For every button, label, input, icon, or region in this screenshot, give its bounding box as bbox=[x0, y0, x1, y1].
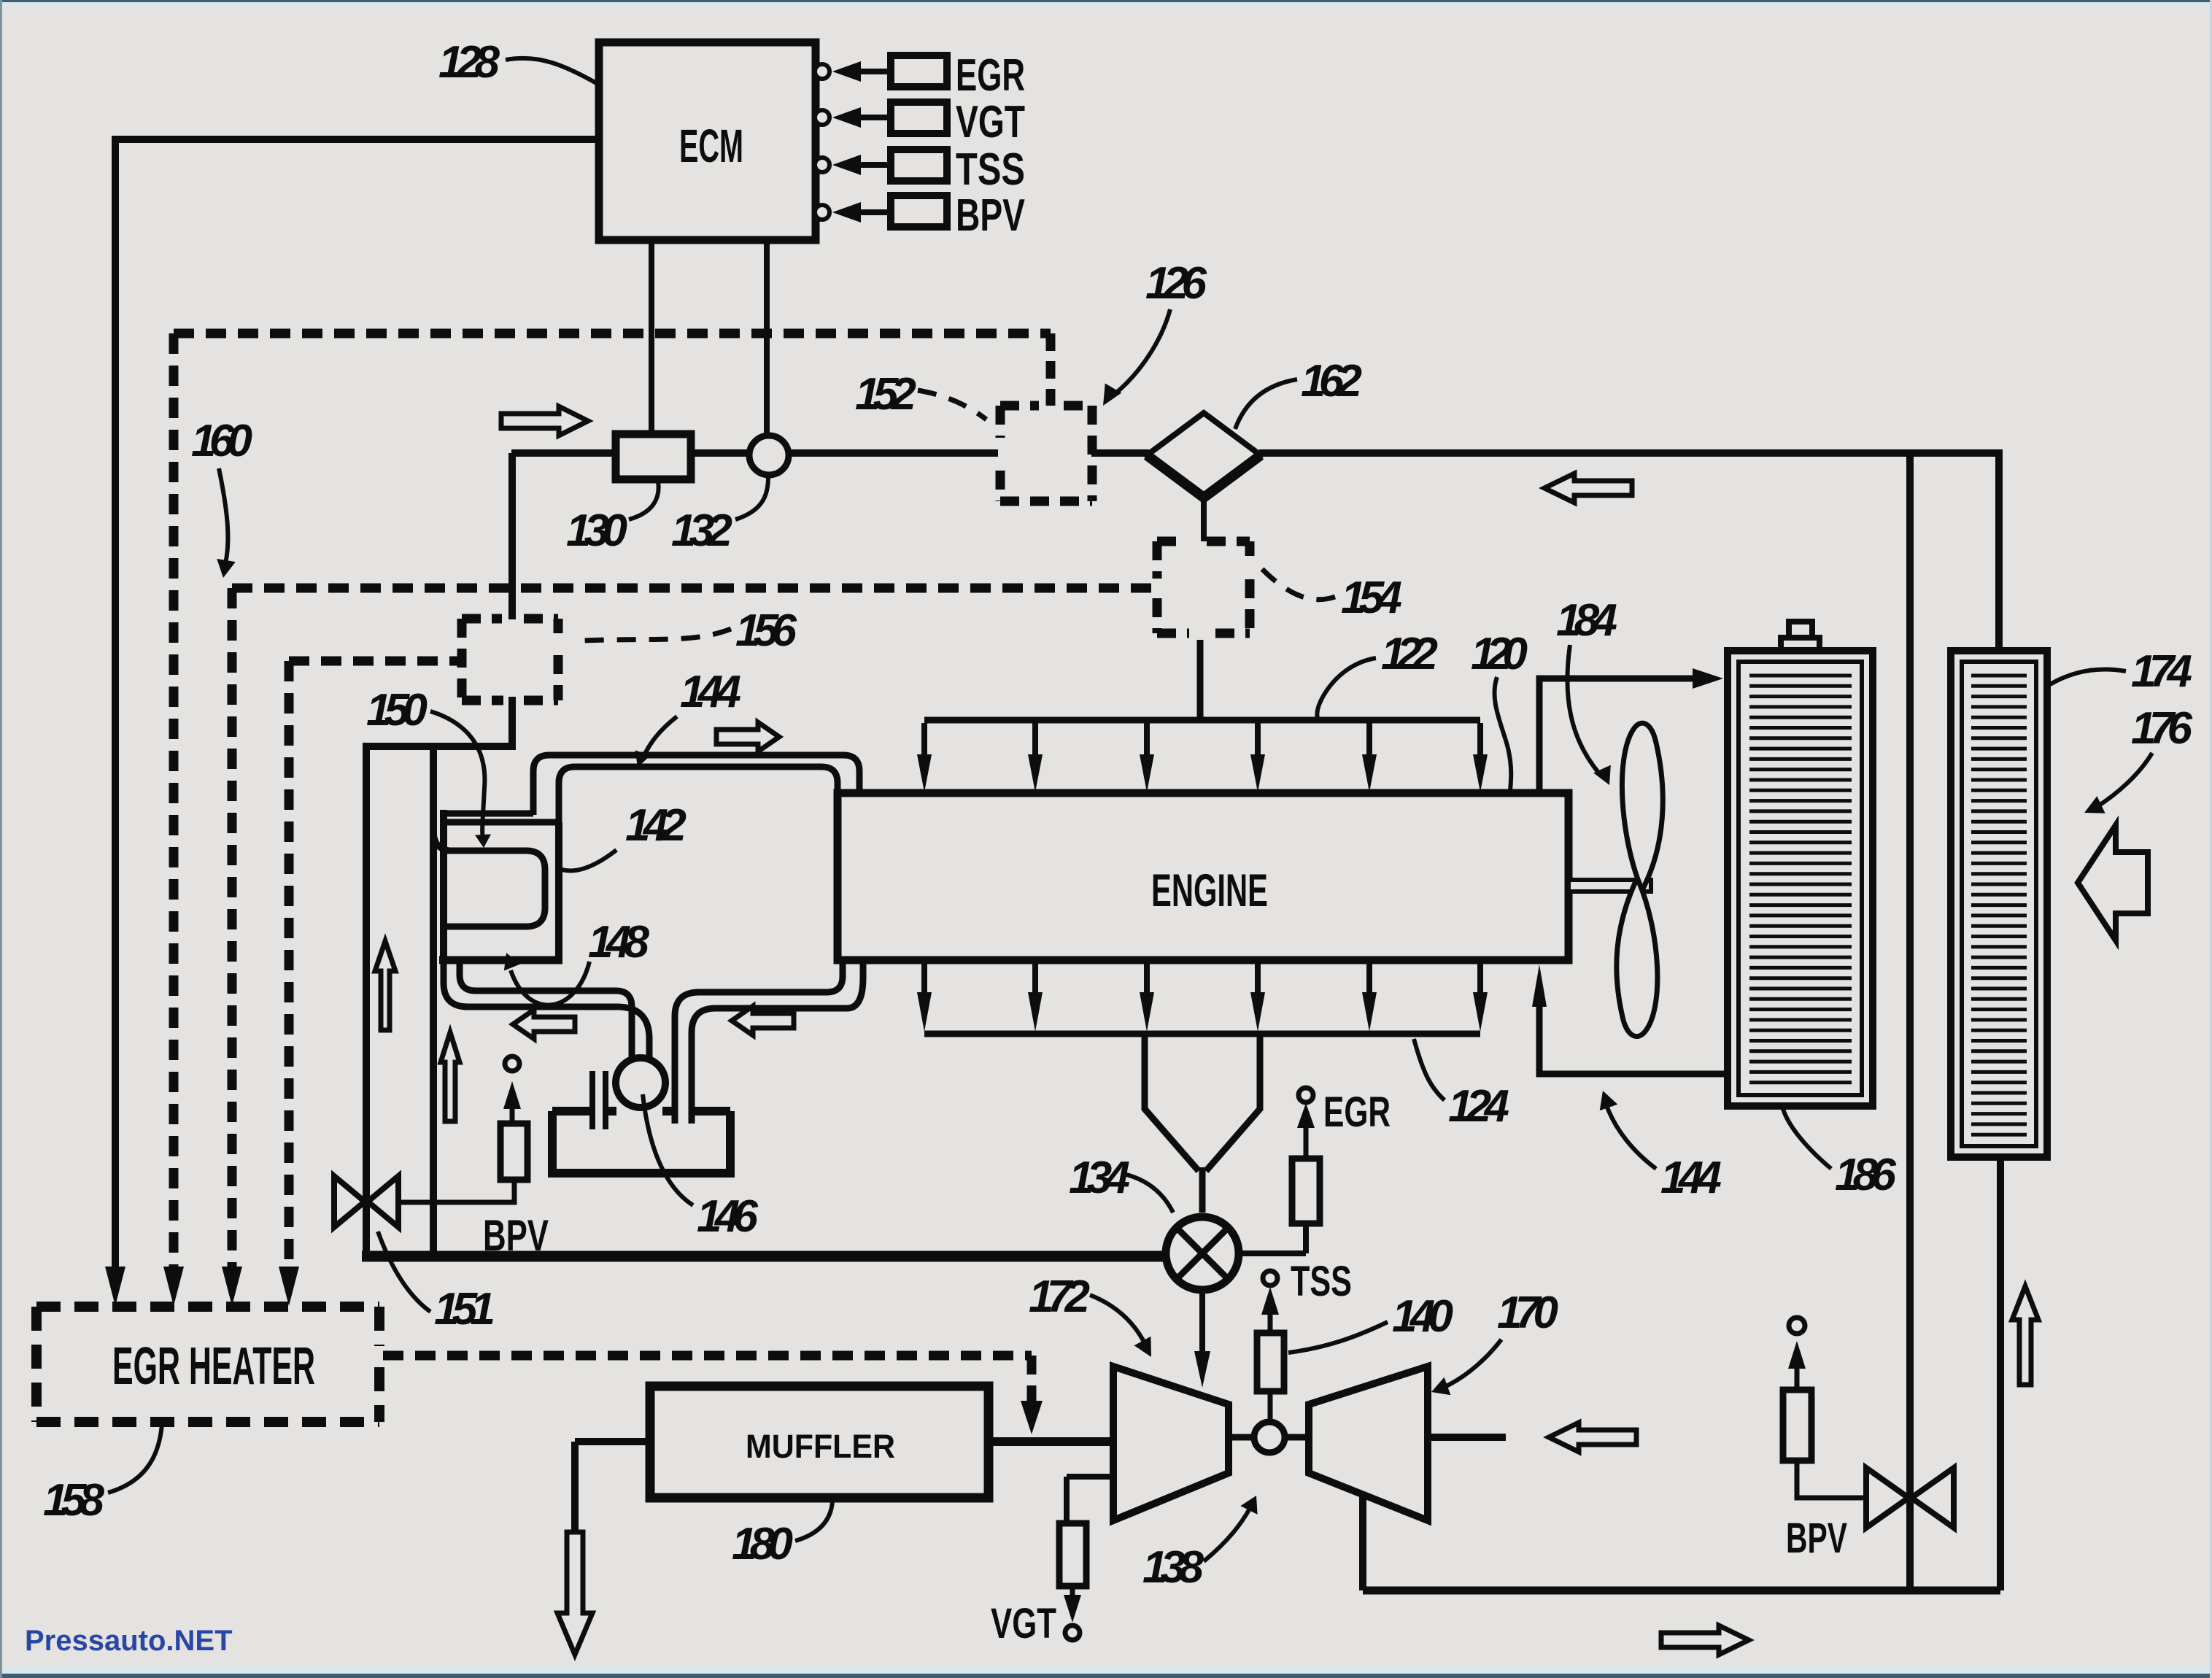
flow arrow left (top return pipe) bbox=[1544, 473, 1632, 503]
flow arrow left (conduit 148) bbox=[513, 1010, 575, 1039]
page border bottom bbox=[0, 1666, 2212, 1674]
BPV terminal (right) bbox=[1789, 1318, 1805, 1334]
svg-text:150: 150 bbox=[366, 685, 428, 735]
dashed harness rail #2 bbox=[232, 584, 1157, 593]
pipe: EGR supply line to mixer (bottom of loop) bbox=[362, 1251, 1168, 1262]
fan blade upper 184 bbox=[1622, 723, 1663, 887]
dashed harness rail #3 bbox=[289, 657, 462, 666]
pin terminal TSS on ECM bbox=[815, 158, 829, 172]
BPV terminal (left) bbox=[505, 1056, 519, 1071]
conduit 148 wall inner (cooler to pump) bbox=[460, 962, 632, 1062]
pipe: down into charge cooler 174 bbox=[1995, 449, 2003, 649]
svg-text:151: 151 bbox=[434, 1284, 495, 1334]
leader 130 bbox=[629, 482, 659, 519]
dashed drop to box 152 bbox=[1046, 333, 1056, 406]
BPV resistor 151 branch bbox=[500, 1124, 527, 1180]
leader 122 bbox=[1317, 658, 1376, 719]
pipe: horizontal y=1023 to left loop bbox=[363, 743, 516, 750]
leader 174 bbox=[2050, 669, 2126, 684]
svg-text:186: 186 bbox=[1835, 1150, 1897, 1200]
coolant pump 146 bbox=[616, 1058, 665, 1107]
svg-text:142: 142 bbox=[625, 800, 687, 851]
EGR cooler 142 right wall bbox=[555, 822, 562, 963]
flow arrow right (bottom return) bbox=[1661, 1625, 1749, 1655]
svg-text:156: 156 bbox=[735, 606, 797, 656]
svg-text:120: 120 bbox=[1471, 629, 1528, 679]
leader 144 bbox=[642, 716, 677, 760]
TSS terminal bbox=[1263, 1271, 1277, 1285]
flow arrow right (above conduit 144) bbox=[716, 722, 779, 751]
pipe: intake line y=621 bbox=[511, 449, 617, 457]
arrow 176 bbox=[2097, 753, 2152, 807]
arrow 172 bbox=[1090, 1295, 1145, 1345]
svg-text:162: 162 bbox=[1301, 356, 1362, 406]
exhaust runner arrow bbox=[1477, 963, 1483, 994]
muffler 180 bbox=[650, 1386, 989, 1498]
flow arrow left into compressor bbox=[1549, 1423, 1636, 1452]
coolant tank top edge bbox=[552, 1107, 730, 1116]
svg-text:130: 130 bbox=[566, 506, 627, 556]
svg-text:VGT: VGT bbox=[956, 97, 1025, 147]
diamond junction 162 bbox=[1147, 413, 1261, 498]
svg-text:184: 184 bbox=[1556, 595, 1617, 646]
wire diamond to box 154 bbox=[1201, 498, 1207, 541]
wire mixer right to EGR sensor branch bbox=[1238, 1250, 1306, 1256]
intake runner arrow bbox=[1032, 723, 1038, 757]
svg-text:146: 146 bbox=[697, 1191, 759, 1242]
diamond shadow edges bbox=[1147, 455, 1261, 498]
svg-text:ECM: ECM bbox=[679, 120, 743, 172]
coolant tank body bbox=[552, 1111, 730, 1173]
VGT terminal bbox=[1065, 1625, 1080, 1640]
svg-text:EGR HEATER: EGR HEATER bbox=[112, 1337, 315, 1396]
VGT actuator branch bbox=[1067, 1474, 1113, 1480]
charge cooler 174 outer bbox=[1951, 651, 2047, 1157]
arrow 144 (radiator link) bbox=[1606, 1105, 1656, 1169]
svg-text:TSS: TSS bbox=[956, 144, 1025, 195]
leader 186 bbox=[1783, 1109, 1831, 1169]
svg-text:ENGINE: ENGINE bbox=[1151, 865, 1268, 916]
flow arrow left (coolant return) bbox=[732, 1006, 794, 1035]
sensor box EGR bbox=[891, 55, 947, 87]
dashed leader 156 bbox=[584, 629, 731, 641]
intake runner arrow bbox=[1477, 723, 1483, 757]
BPV valve 151 (left) bbox=[334, 1176, 365, 1227]
svg-text:140: 140 bbox=[1392, 1291, 1453, 1342]
right return riser (radiator 174 outlet) bbox=[1997, 1157, 2004, 1590]
intake runner arrow bbox=[1144, 723, 1150, 757]
svg-text:134: 134 bbox=[1069, 1153, 1130, 1203]
leader 140 bbox=[1288, 1322, 1388, 1353]
wire BPV resistor to valve 151 bbox=[401, 1180, 514, 1202]
leader 142 bbox=[562, 850, 616, 870]
EGR mixer valve 134 bbox=[1166, 1217, 1239, 1290]
svg-text:180: 180 bbox=[732, 1519, 793, 1569]
wire ECM bottom to box 130 bbox=[649, 240, 654, 436]
pin terminal BPV on ECM bbox=[815, 205, 829, 220]
leader 128 bbox=[506, 58, 599, 85]
page border right bbox=[2210, 0, 2212, 1678]
svg-text:138: 138 bbox=[1142, 1542, 1204, 1593]
dashed harness left drop #1 bbox=[169, 333, 179, 1271]
dashed sensor box 154 bbox=[1157, 537, 1250, 546]
exhaust runner arrow bbox=[1255, 963, 1261, 994]
conduit 144 outer wall (to engine) bbox=[533, 755, 859, 815]
radiator 186 inner bbox=[1739, 662, 1862, 1095]
pipe: diamond to right side bbox=[1259, 449, 1995, 457]
bottom return pipe bbox=[1363, 1587, 2000, 1595]
exhaust runner arrow bbox=[1366, 963, 1372, 994]
wire mixer down to turbine bbox=[1199, 1289, 1205, 1356]
compressor outlet line bbox=[1428, 1434, 1506, 1441]
wire TSS sensor to ECM bbox=[857, 162, 891, 168]
VGT resistor bbox=[1059, 1523, 1086, 1586]
sensor box 130 bbox=[616, 434, 691, 479]
flow arrow up (left loop inner) bbox=[375, 941, 395, 1030]
svg-text:124: 124 bbox=[1448, 1081, 1509, 1132]
svg-text:122: 122 bbox=[1381, 629, 1438, 679]
EGR cooler 142 inner cavity bbox=[444, 851, 545, 927]
svg-text:174: 174 bbox=[2131, 646, 2192, 697]
EGR cooler 142 top wall lower bbox=[440, 819, 559, 826]
arrowhead into EGR heater (solid line) bbox=[105, 1267, 125, 1306]
charge cooler 174 fins bbox=[1971, 676, 2027, 1134]
svg-text:176: 176 bbox=[2131, 703, 2193, 754]
radiator 186 outer bbox=[1728, 651, 1873, 1106]
radiator 186 cap bbox=[1781, 638, 1820, 648]
intake runner arrow bbox=[1366, 723, 1372, 757]
svg-text:EGR: EGR bbox=[956, 50, 1025, 101]
leader 132 bbox=[735, 477, 768, 519]
EGR cooler 142 bottom wall bbox=[439, 956, 562, 964]
arrow 160 bbox=[219, 468, 228, 563]
leader 124 bbox=[1414, 1039, 1445, 1100]
leader 148 bbox=[511, 962, 589, 1005]
dashed harness top rail 160 bbox=[174, 329, 1051, 339]
intake runner arrow bbox=[921, 723, 927, 757]
svg-text:BPV: BPV bbox=[1786, 1515, 1847, 1562]
conduit 144 coolant return wall inner (engine to tank) bbox=[675, 960, 843, 1124]
svg-text:126: 126 bbox=[1145, 258, 1207, 309]
dashed control line: EGR heater to exhaust pipe bbox=[383, 1351, 1032, 1361]
leader 150 bbox=[430, 711, 484, 839]
exhaust runner arrow bbox=[1144, 963, 1150, 994]
fan shaft bbox=[1569, 880, 1651, 892]
BPV resistor (right) bbox=[1783, 1390, 1811, 1461]
svg-text:144: 144 bbox=[1660, 1153, 1722, 1203]
tailpipe from muffler bbox=[575, 1438, 650, 1445]
exhaust manifold 124 rail bbox=[924, 1031, 1480, 1037]
wire ECM bottom to circle 132 bbox=[764, 240, 770, 438]
leader 120 bbox=[1494, 677, 1511, 791]
leader 134 bbox=[1126, 1175, 1173, 1213]
svg-text:MUFFLER: MUFFLER bbox=[746, 1428, 895, 1465]
leader 158 bbox=[108, 1424, 162, 1493]
conduit 144 inner wall bbox=[559, 767, 838, 825]
wire BPV resistor to valve bbox=[1797, 1461, 1865, 1498]
svg-text:172: 172 bbox=[1029, 1272, 1090, 1322]
engine block 120 bbox=[838, 793, 1569, 960]
svg-text:Pressauto.NET: Pressauto.NET bbox=[25, 1625, 233, 1657]
dashed sensor box 156 bbox=[462, 614, 558, 624]
wire VGT sensor to ECM bbox=[857, 115, 891, 120]
pin terminal VGT on ECM bbox=[815, 110, 829, 125]
pipe engine to radiator 186 (bottom link) bbox=[1539, 1005, 1725, 1074]
compressor 170 bbox=[1309, 1366, 1428, 1520]
dashed leader 152 bbox=[918, 390, 986, 419]
flow arrow up (right riser) bbox=[2012, 1286, 2038, 1385]
dashed leader 154 bbox=[1262, 569, 1335, 600]
page border top bbox=[0, 0, 2212, 2]
flow arrow right (intake inlet) bbox=[501, 406, 588, 436]
wire: ECM to left-side down line bbox=[115, 139, 599, 1271]
leader 151 bbox=[378, 1232, 430, 1312]
branch arc from L2 into cooler cavity bbox=[433, 830, 452, 851]
EGR sensor resistor (exhaust side) bbox=[1292, 1159, 1320, 1223]
wire EGR sensor to ECM bbox=[857, 69, 891, 74]
sensor circle 132 bbox=[749, 436, 789, 475]
feed from charge valve to intake rail bbox=[1197, 640, 1204, 717]
leader 180 bbox=[795, 1501, 832, 1541]
dashed harness left drop #2 bbox=[228, 588, 237, 1271]
sensor box VGT bbox=[891, 102, 947, 134]
shaft bearing circle 138 bbox=[1254, 1422, 1285, 1453]
leader 162 bbox=[1235, 379, 1297, 429]
svg-text:158: 158 bbox=[43, 1475, 105, 1526]
compressor bottom loop wire bbox=[1359, 1493, 1366, 1590]
fan blade lower 184 bbox=[1617, 881, 1658, 1037]
arrow 138 bbox=[1204, 1507, 1250, 1561]
ECM box U128 bbox=[599, 42, 816, 240]
svg-text:154: 154 bbox=[1341, 573, 1402, 623]
svg-text:EGR: EGR bbox=[1323, 1089, 1391, 1136]
svg-text:BPV: BPV bbox=[483, 1211, 549, 1260]
ram air block arrow 176 bbox=[2078, 825, 2148, 940]
svg-text:148: 148 bbox=[588, 917, 650, 967]
sensor box TSS bbox=[891, 150, 947, 181]
pipe: left loop vertical L2 bbox=[430, 743, 437, 1256]
dashed harness left drop #3 bbox=[285, 661, 294, 1271]
pipe engine to radiator 186 (top link) bbox=[1539, 678, 1693, 795]
svg-text:170: 170 bbox=[1497, 1288, 1558, 1338]
turbine 172 bbox=[1113, 1366, 1229, 1520]
arrow 170 bbox=[1443, 1339, 1501, 1388]
pipe: left loop vertical L1 bbox=[363, 743, 370, 1259]
svg-text:BPV: BPV bbox=[956, 190, 1025, 241]
exhaust runner arrow bbox=[921, 963, 927, 994]
TSS sensor resistor bbox=[1257, 1333, 1284, 1391]
tank filler stub bbox=[589, 1071, 595, 1129]
EGR cooler 142 top wall upper bbox=[440, 811, 533, 817]
leader 146 bbox=[643, 1094, 693, 1205]
svg-text:144: 144 bbox=[680, 667, 741, 717]
BPV valve (right) bbox=[1866, 1468, 1909, 1528]
BPV bypass riser bbox=[1906, 456, 1914, 1590]
EGR heater box 158 (dashed) bbox=[36, 1302, 379, 1312]
radiator 186 fins bbox=[1749, 676, 1852, 1083]
exhaust runner arrow bbox=[1032, 963, 1038, 994]
intake runner arrow bbox=[1255, 723, 1261, 757]
tailpipe outlet arrow bbox=[557, 1532, 592, 1655]
conduit coolant return wall outer bbox=[692, 960, 863, 1124]
pin terminal EGR on ECM bbox=[815, 64, 829, 79]
leader 184 bbox=[1567, 645, 1599, 773]
arrow 126 bbox=[1115, 309, 1170, 394]
flow arrow up (left loop second) bbox=[441, 1032, 460, 1121]
turbo shaft bbox=[1229, 1434, 1253, 1441]
EGR cooler 142 left wall bbox=[440, 810, 447, 963]
svg-text:132: 132 bbox=[671, 506, 732, 556]
sensor box BPV bbox=[891, 196, 947, 227]
conduit 148 wall outer bbox=[444, 963, 649, 1062]
svg-text:128: 128 bbox=[438, 37, 500, 88]
svg-text:VGT: VGT bbox=[991, 1600, 1056, 1647]
wire BPV sensor to ECM bbox=[857, 209, 891, 215]
svg-text:TSS: TSS bbox=[1291, 1258, 1352, 1305]
svg-text:152: 152 bbox=[855, 369, 916, 419]
dashed sensor box 152 bbox=[1000, 401, 1092, 411]
EGR terminal bbox=[1299, 1088, 1313, 1102]
charge cooler 174 inner bbox=[1962, 662, 2036, 1146]
exhaust pipe muffler to turbine bbox=[989, 1437, 1113, 1446]
pipe: down from junction through box 156 bbox=[508, 453, 516, 619]
intake manifold 122 rail bbox=[924, 717, 1480, 724]
page border left bbox=[0, 0, 2, 1678]
exhaust collector funnel bbox=[1145, 1037, 1199, 1171]
svg-text:160: 160 bbox=[191, 416, 252, 466]
